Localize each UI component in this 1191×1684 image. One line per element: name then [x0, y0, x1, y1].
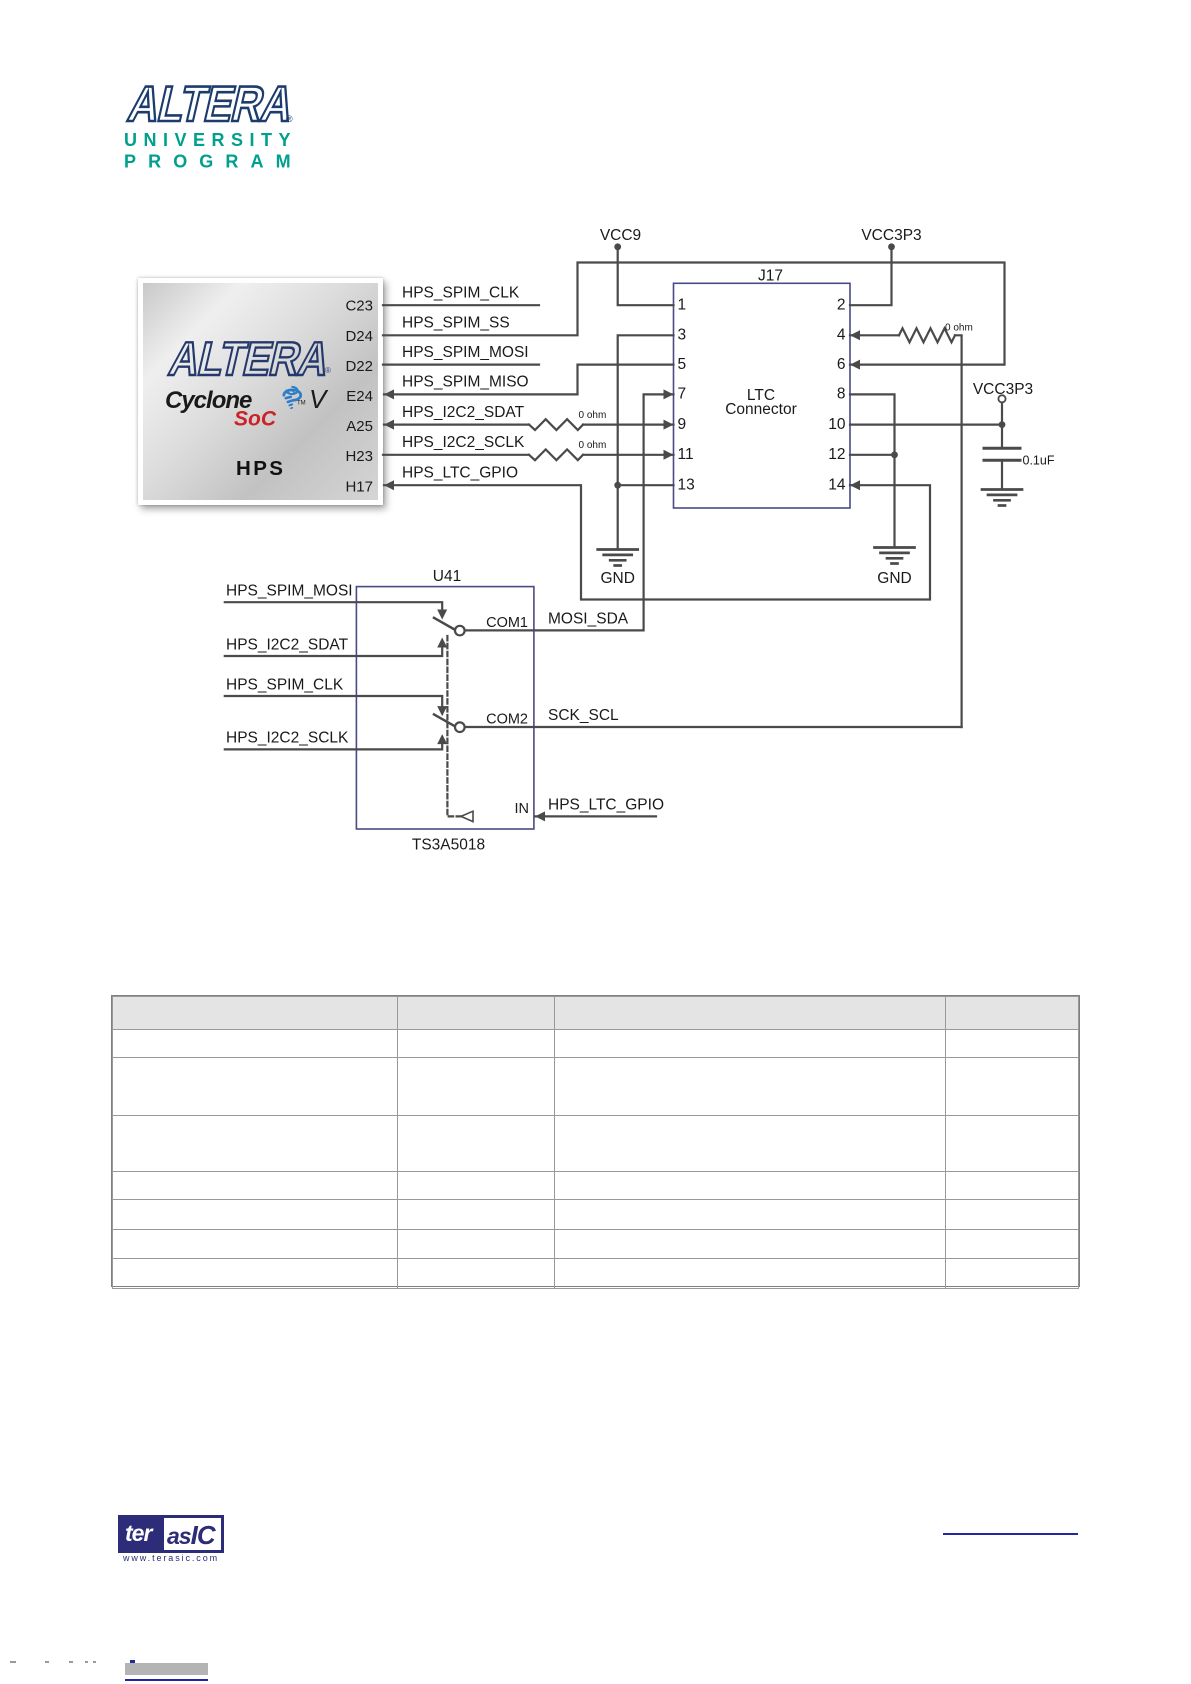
tornado icon	[284, 387, 301, 408]
svg-text:4: 4	[837, 327, 846, 344]
wire HPS_SPIM_MOSI into U41 switch 1	[225, 602, 442, 609]
wire J17 pin 8 to GND	[850, 394, 895, 546]
svg-text:Connector: Connector	[725, 401, 797, 418]
wire J17 pin 10 to VCC3P3/cap node	[850, 424, 1002, 426]
junction node pin10/VCC3P3	[999, 421, 1006, 428]
svg-text:VCC3P3: VCC3P3	[861, 227, 921, 244]
svg-text:0.1uF: 0.1uF	[1023, 454, 1055, 468]
svg-text:HPS_SPIM_SS: HPS_SPIM_SS	[402, 315, 510, 332]
wire MOSI_SDA from U41 COM1 to J17 pin 7	[464, 394, 673, 630]
arrowhead up to switch 2	[437, 734, 447, 744]
wire J17 pin 12 to GND rail	[850, 454, 895, 456]
svg-text:U41: U41	[433, 568, 461, 585]
ALTERA wordmark (outlined)	[124, 76, 299, 131]
arrowhead into U41 IN	[535, 811, 545, 821]
svg-text:HPS_SPIM_MOSI: HPS_SPIM_MOSI	[226, 583, 353, 600]
switch 2 blade and COM2 contact	[434, 714, 455, 726]
junction node pin12/GND	[891, 451, 898, 458]
ground symbol GND (right)	[875, 548, 915, 564]
wire J17 pin 4 to resistor	[850, 334, 899, 336]
wire resistor down to SCK_SCL	[955, 335, 962, 727]
capacitor C 0.1uF	[984, 448, 1020, 460]
arrowhead down to switch 1	[437, 610, 447, 620]
svg-text:HPS_SPIM_MOSI: HPS_SPIM_MOSI	[402, 344, 529, 361]
svg-text:0 ohm: 0 ohm	[945, 322, 973, 333]
wire VCC9 to J17 pin 1	[618, 247, 674, 305]
wire HPS_SPIM_MISO from J17 pin 5 to E24	[384, 365, 674, 395]
arrowhead into HPS H17	[384, 480, 394, 490]
svg-text:7: 7	[678, 386, 687, 403]
arrowhead into J17 pin 14	[850, 480, 860, 490]
svg-text:14: 14	[828, 477, 846, 494]
svg-text:HPS_SPIM_CLK: HPS_SPIM_CLK	[402, 285, 520, 302]
clipped footer text dashes	[10, 1661, 16, 1663]
svg-text:HPS_I2C2_SCLK: HPS_I2C2_SCLK	[226, 730, 349, 747]
arrowhead up to switch 1	[437, 638, 447, 648]
svg-text:6: 6	[837, 356, 846, 373]
switch 1 blade and COM1 contact	[434, 618, 455, 630]
arrowhead into HPS A25	[384, 420, 394, 430]
wire HPS_I2C2_SDAT into U41 switch 1	[225, 646, 442, 656]
svg-text:13: 13	[678, 477, 695, 494]
svg-text:10: 10	[828, 416, 846, 433]
wire SCK_SCL from U41 COM2 to pin4 resistor	[464, 726, 961, 728]
svg-text:HPS_I2C2_SDAT: HPS_I2C2_SDAT	[402, 404, 525, 421]
svg-text:HPS_I2C2_SCLK: HPS_I2C2_SCLK	[402, 434, 525, 451]
resistor R (0 ohm) on pin 4 line	[899, 328, 955, 342]
arrowhead down to switch 2	[437, 706, 447, 716]
svg-text:9: 9	[678, 416, 687, 433]
terasic url	[118, 1553, 224, 1563]
wire HPS_LTC_GPIO from H17 to J17 pin 14	[384, 485, 930, 599]
wire J17 pin 3 to GND rail	[618, 335, 674, 548]
svg-text:5: 5	[678, 356, 687, 373]
svg-text:1: 1	[678, 297, 687, 314]
svg-text:0 ohm: 0 ohm	[579, 410, 607, 421]
svg-text:8: 8	[837, 386, 846, 403]
arrowhead into J17 pin 7	[664, 389, 674, 399]
arrowhead into J17 pin 6	[850, 360, 860, 370]
Altera University Program logo	[100, 70, 340, 180]
ALTERA logo inside HPS	[165, 332, 335, 386]
clipped footer link mark	[130, 1660, 135, 1663]
terasic logo	[118, 1515, 224, 1553]
arrowhead into J17 pin 9	[664, 420, 674, 430]
junction node pin13/GND	[614, 482, 621, 489]
svg-text:SCK_SCL: SCK_SCL	[548, 707, 619, 724]
svg-text:11: 11	[678, 446, 694, 463]
svg-text:GND: GND	[877, 570, 911, 587]
svg-text:2: 2	[837, 297, 846, 314]
dashed control line from switches to IN	[447, 636, 461, 816]
wire HPS_SPIM_CLK into U41 switch 2	[225, 696, 442, 706]
svg-text:HPS_LTC_GPIO: HPS_LTC_GPIO	[402, 465, 518, 482]
ground symbol (capacitor)	[982, 490, 1022, 506]
svg-text:HPS_SPIM_CLK: HPS_SPIM_CLK	[226, 676, 344, 693]
analog switch U41 box	[356, 587, 534, 829]
clipped footer gray box	[125, 1663, 208, 1675]
svg-text:3: 3	[678, 327, 687, 344]
wire HPS_I2C2_SCLK from H23 to resistor	[383, 454, 529, 456]
wire HPS_SPIM_CLK stub (C23)	[383, 304, 539, 306]
svg-text:IN: IN	[515, 801, 530, 817]
wire HPS_SPIM_SS from D24 to J17 pin 6	[383, 263, 1005, 365]
svg-text:GND: GND	[600, 570, 634, 587]
svg-text:J17: J17	[758, 268, 783, 285]
wire HPS_SPIM_MOSI stub (D22)	[383, 364, 539, 366]
resistor R (0 ohm) on SCLK line	[529, 449, 583, 460]
resistor R (0 ohm) on SDAT line	[529, 419, 583, 430]
signal description table (empty)	[111, 995, 1080, 1287]
svg-text:HPS_LTC_GPIO: HPS_LTC_GPIO	[548, 796, 664, 813]
svg-text:COM1: COM1	[486, 615, 528, 631]
svg-text:VCC9: VCC9	[600, 227, 641, 244]
svg-text:0 ohm: 0 ohm	[579, 440, 607, 451]
wire capacitor to ground	[1001, 462, 1003, 489]
wire HPS_I2C2_SCLK into U41 switch 2	[225, 743, 442, 749]
svg-text:MOSI_SDA: MOSI_SDA	[548, 610, 629, 627]
arrowhead into HPS E24	[384, 389, 394, 399]
svg-text:TS3A5018: TS3A5018	[412, 837, 485, 854]
ground symbol GND (left)	[598, 550, 638, 566]
wire HPS_LTC_GPIO stub to U41 IN	[535, 815, 656, 817]
svg-text:HPS_I2C2_SDAT: HPS_I2C2_SDAT	[226, 636, 349, 653]
footer rule (blue line right)	[943, 1533, 1078, 1535]
svg-text:HPS_SPIM_MISO: HPS_SPIM_MISO	[402, 374, 529, 391]
arrowhead into J17 pin 4	[850, 330, 860, 340]
HPS block U (Cyclone V SoC HPS)	[138, 278, 383, 505]
wire VCC3P3 down to capacitor C	[1001, 403, 1003, 448]
arrowhead into J17 pin 11	[664, 450, 674, 460]
wire resistor to J17 pin 9	[583, 424, 674, 426]
open arrowhead on control line	[461, 811, 473, 821]
clipped footer blue underline	[125, 1679, 208, 1681]
svg-text:COM2: COM2	[486, 712, 528, 728]
wire HPS_I2C2_SDAT from A25 to resistor	[384, 424, 529, 426]
svg-text:12: 12	[828, 446, 845, 463]
connector J17 box	[674, 283, 851, 508]
wire VCC3P3 to J17 pin 2	[850, 247, 892, 305]
wire J17 pin 13 to GND rail	[618, 484, 674, 486]
wire resistor to J17 pin 11	[583, 454, 674, 456]
